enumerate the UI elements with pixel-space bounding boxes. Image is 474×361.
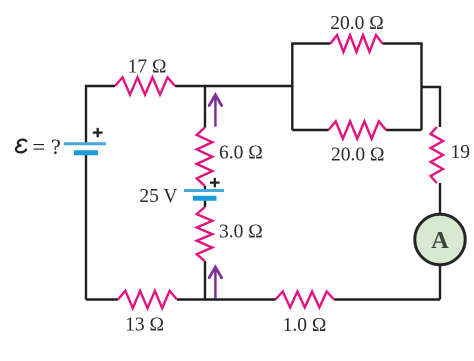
svg-text:19: 19 <box>451 142 471 163</box>
svg-text:13 Ω: 13 Ω <box>125 315 164 336</box>
svg-text:25 V: 25 V <box>139 186 177 207</box>
svg-text:20.0 Ω: 20.0 Ω <box>330 13 384 34</box>
svg-text:= ?: = ? <box>33 134 61 159</box>
svg-text:6.0 Ω: 6.0 Ω <box>219 143 263 164</box>
svg-text:1.0 Ω: 1.0 Ω <box>283 315 327 336</box>
svg-text:17 Ω: 17 Ω <box>128 56 167 77</box>
svg-text:20.0 Ω: 20.0 Ω <box>331 145 385 166</box>
svg-text:A: A <box>431 227 449 254</box>
svg-text:3.0 Ω: 3.0 Ω <box>219 222 263 243</box>
